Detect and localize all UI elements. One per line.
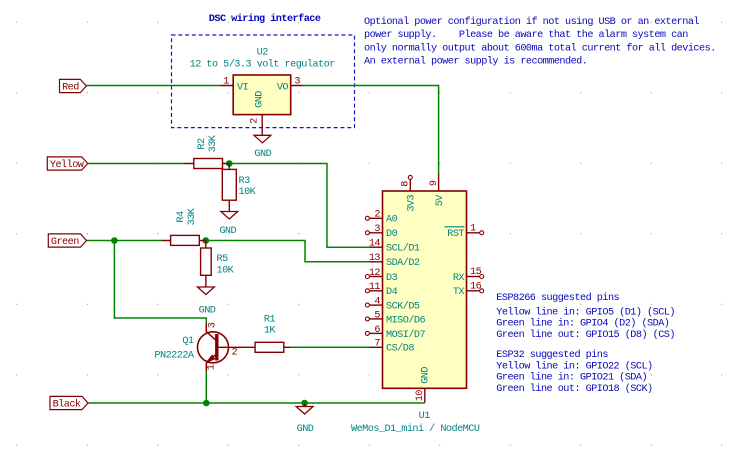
svg-text:9: 9	[429, 180, 440, 186]
svg-text:U2: U2	[257, 48, 269, 59]
svg-text:R5: R5	[217, 254, 229, 265]
svg-text:GND: GND	[297, 424, 314, 435]
svg-text:RX: RX	[453, 273, 465, 284]
svg-text:11: 11	[369, 282, 381, 293]
svg-text:RST: RST	[447, 229, 464, 240]
svg-text:1: 1	[207, 364, 218, 370]
svg-text:SCL/D1: SCL/D1	[386, 243, 420, 255]
svg-text:D0: D0	[386, 229, 398, 240]
svg-text:2: 2	[374, 210, 380, 221]
svg-text:D3: D3	[386, 273, 398, 284]
svg-text:3: 3	[294, 77, 300, 88]
svg-text:33K: 33K	[208, 134, 219, 152]
svg-text:1K: 1K	[264, 326, 277, 337]
svg-text:13: 13	[369, 253, 381, 264]
svg-text:DSC wiring interface: DSC wiring interface	[209, 13, 321, 25]
svg-text:1: 1	[223, 77, 229, 88]
svg-text:GND: GND	[255, 91, 266, 108]
svg-text:Green line in: GPIO21 (SDA): Green line in: GPIO21 (SDA)	[496, 372, 647, 384]
svg-text:CS/D8: CS/D8	[386, 343, 414, 355]
svg-text:16: 16	[470, 281, 482, 292]
svg-text:10: 10	[415, 390, 426, 402]
svg-text:Q1: Q1	[182, 336, 194, 347]
svg-text:Green line out: GPIO15 (D8) (C: Green line out: GPIO15 (D8) (CS)	[496, 329, 675, 341]
svg-text:VI: VI	[237, 82, 249, 93]
svg-text:GND: GND	[219, 226, 236, 237]
svg-text:10K: 10K	[239, 187, 257, 198]
svg-text:Green line in: GPIO4 (D2) (SDA: Green line in: GPIO4 (D2) (SDA)	[496, 318, 669, 330]
svg-text:GND: GND	[254, 149, 271, 160]
svg-text:33K: 33K	[187, 207, 198, 225]
svg-text:14: 14	[369, 239, 381, 250]
svg-text:An external power supply is re: An external power supply is recommended.	[364, 56, 587, 68]
svg-text:8: 8	[401, 181, 412, 187]
svg-text:Yellow line in: GPIO22 (SCL): Yellow line in: GPIO22 (SCL)	[496, 360, 652, 372]
svg-text:ESP8266 suggested pins: ESP8266 suggested pins	[496, 292, 619, 304]
svg-text:1: 1	[470, 223, 476, 234]
svg-text:3V3: 3V3	[406, 195, 417, 212]
svg-text:Black: Black	[53, 398, 81, 410]
svg-text:Red: Red	[62, 81, 79, 93]
svg-text:2: 2	[232, 348, 238, 359]
svg-text:ESP32 suggested pins: ESP32 suggested pins	[496, 349, 608, 361]
svg-text:Yellow line in: GPIO5 (D1) (SC: Yellow line in: GPIO5 (D1) (SCL)	[496, 307, 675, 319]
svg-text:WeMos_D1_mini / NodeMCU: WeMos_D1_mini / NodeMCU	[351, 423, 480, 435]
svg-text:SCK/D5: SCK/D5	[386, 301, 420, 313]
svg-text:U1: U1	[419, 411, 431, 422]
svg-text:A0: A0	[386, 215, 398, 226]
svg-text:MISO/D6: MISO/D6	[386, 314, 426, 326]
svg-text:Green line out: GPIO18 (SCK): Green line out: GPIO18 (SCK)	[496, 383, 652, 395]
svg-text:GND: GND	[421, 367, 432, 384]
svg-text:R4: R4	[176, 211, 187, 223]
svg-text:5: 5	[374, 310, 380, 321]
svg-text:only normally output about 600: only normally output about 600ma total c…	[364, 42, 716, 54]
svg-text:10K: 10K	[217, 265, 235, 276]
svg-text:4: 4	[374, 297, 380, 308]
svg-text:Green: Green	[51, 237, 79, 248]
svg-text:power supply. Please be awa: power supply. Please be aware that the a…	[364, 29, 688, 41]
svg-text:3: 3	[374, 224, 380, 235]
svg-text:5V: 5V	[435, 194, 446, 207]
svg-text:MOSI/D7: MOSI/D7	[386, 329, 426, 341]
svg-text:15: 15	[470, 267, 482, 278]
svg-text:SDA/D2: SDA/D2	[386, 257, 420, 269]
svg-text:GND: GND	[199, 306, 216, 317]
svg-text:2: 2	[250, 118, 261, 124]
svg-text:VO: VO	[277, 82, 289, 93]
svg-text:Optional power configuration i: Optional power configuration if not usin…	[364, 16, 699, 28]
svg-text:D4: D4	[386, 287, 398, 298]
svg-text:Yellow: Yellow	[50, 159, 85, 171]
svg-text:R2: R2	[197, 138, 208, 150]
svg-text:R1: R1	[264, 314, 276, 325]
svg-text:3: 3	[208, 322, 219, 328]
svg-text:6: 6	[374, 325, 380, 336]
svg-text:TX: TX	[453, 287, 465, 298]
svg-text:12 to 5/3.3 volt regulator: 12 to 5/3.3 volt regulator	[190, 58, 336, 70]
svg-text:PN2222A: PN2222A	[154, 351, 195, 362]
svg-text:12: 12	[369, 268, 381, 279]
svg-text:7: 7	[374, 339, 380, 350]
svg-text:R3: R3	[239, 176, 251, 187]
